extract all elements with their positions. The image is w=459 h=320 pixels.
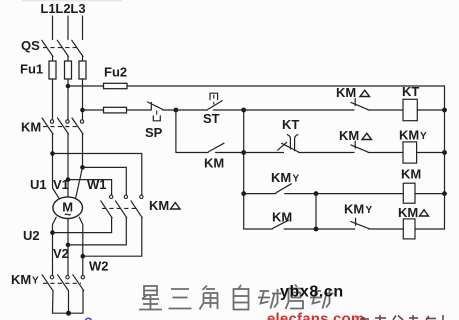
wire phase2 KM to V1 (67, 134, 69, 197)
contact KMY NC bar (355, 218, 357, 225)
contactor KMY pole3 terminal (81, 276, 84, 279)
svg-text:Fu2: Fu2 (104, 65, 127, 80)
svg-text:W1: W1 (87, 177, 107, 192)
button SP cap (153, 116, 160, 121)
wire motor lead bottom-mid (67, 219, 69, 276)
wire KMY coil to right rail (417, 152, 445, 154)
svg-text:U2: U2 (23, 228, 40, 243)
svg-text:KM: KM (339, 128, 359, 143)
contactor KMdelta pole1 blade (101, 201, 112, 218)
svg-text:KM: KM (11, 272, 31, 287)
wire rung2 mid segment (299, 152, 354, 154)
switch QS pole 1 blade (42, 40, 53, 56)
contactor KM pole3 terminal (80, 120, 83, 123)
node star point (66, 311, 71, 316)
contactor KMY linkage dashed (43, 282, 81, 284)
button SP blade (148, 102, 163, 109)
node rung3 right junction (442, 191, 447, 196)
svg-text:L1: L1 (40, 1, 55, 16)
relay KT timed contact cup right (295, 135, 298, 151)
contactor KM linkage dashed (43, 126, 80, 128)
svg-text:L2: L2 (55, 1, 70, 16)
wire phase2 Fu1 to KM (67, 79, 69, 120)
coil KMdelta label triangle (420, 210, 429, 216)
node rung3 branch junction (314, 191, 319, 196)
node V2 junction (66, 243, 71, 248)
contactor KM pole2 blade (58, 118, 69, 134)
wire delta link phase3 to KMdelta pole2 (83, 167, 127, 195)
node U2 junction (50, 230, 55, 235)
node phase2 delta tap (66, 177, 71, 182)
svg-text:elecfans.com: elecfans.com (267, 311, 364, 320)
contact KMY NO blade (276, 184, 291, 193)
wire rung2 left segment (244, 152, 284, 154)
wire delta link phase2 to KMdelta pole1 (68, 180, 112, 196)
svg-text:Y: Y (32, 276, 39, 287)
watermark title char xing (139, 286, 162, 310)
wire rung4 to KMdelta coil (369, 228, 404, 230)
svg-text:KM: KM (204, 156, 224, 171)
button SP NC bar (150, 102, 152, 110)
contactor KMY pole1 terminal (50, 276, 53, 279)
wire KT coil to right rail (417, 109, 444, 111)
node rung2 right junction (442, 150, 447, 155)
wire ST to left rail (213, 109, 243, 111)
wire phase3 Fu1 to KM (82, 79, 84, 120)
contact KMdelta NC rung1 bar (354, 98, 356, 105)
watermark title char dong2 (310, 289, 334, 309)
watermark title char zi (234, 285, 249, 310)
wire motor lead U1 (53, 188, 60, 198)
contact KMdelta NC rung1 blade (351, 102, 368, 109)
motor M1 body (53, 197, 83, 219)
wire phase3 KM to W1 (82, 134, 84, 167)
wire rung4 to KMY NC (316, 228, 355, 230)
node phase3 delta tap (80, 165, 85, 170)
contactor KMdelta power label triangle (171, 203, 181, 210)
wire motor lead bottom-right (79, 217, 83, 275)
svg-text:Y: Y (420, 131, 427, 142)
svg-text:KM: KM (272, 210, 292, 225)
wire rung1 to KT coil (368, 109, 403, 111)
contact KMdelta NC rung2 bar (354, 141, 356, 148)
switch QS pole 2 blade (57, 40, 68, 56)
contact KMdelta NC rung1 triangle (360, 90, 370, 96)
svg-text:ST: ST (203, 111, 220, 126)
svg-text:KM: KM (21, 120, 41, 135)
contact KMdelta NC rung2 triangle (362, 133, 372, 139)
svg-text:KM: KM (401, 167, 421, 182)
contactor KMdelta linkage dashed (102, 207, 139, 209)
wire L1 drop to QS (52, 16, 54, 40)
wire KM coil to right rail (415, 193, 445, 195)
node rung2 left junction (241, 150, 246, 155)
svg-text:Y: Y (366, 205, 373, 216)
wire rung2 to KMY coil (368, 152, 403, 154)
coil KMdelta body (403, 219, 415, 239)
wire junction to ST (176, 109, 207, 111)
wire rung1 (244, 109, 354, 111)
wire branch rung3 to rung4 (315, 194, 317, 229)
node rung3 left junction (241, 191, 246, 196)
watermark title char qi (286, 285, 304, 310)
coil KM body (403, 183, 415, 203)
contactor KMdelta pole1 terminal (110, 195, 113, 198)
wire rung3 to KM coil (316, 193, 403, 195)
fuse Fu2 body top (104, 83, 128, 88)
button ST cap (210, 93, 218, 99)
svg-text:QS: QS (21, 38, 40, 53)
switch QS linkage dashed (43, 47, 79, 49)
svg-text:V1: V1 (53, 177, 69, 192)
watermark title char san (169, 289, 192, 309)
svg-text:W2: W2 (89, 259, 109, 274)
wire rung4 left segment (244, 228, 273, 230)
watermark title char dong1 (258, 289, 282, 309)
fuse Fu2 body bottom (104, 107, 127, 113)
watermark title char jiao (200, 286, 218, 310)
wire SP to junction (163, 109, 176, 111)
contactor KMdelta pole2 terminal (124, 195, 127, 198)
node rung4 branch junction (314, 227, 319, 232)
wire W2 to KMdelta pole3 bottom (83, 218, 142, 256)
fuse Fu1 pole3 body (79, 61, 86, 79)
wire KMdelta coil to right rail (415, 228, 445, 230)
wire phase1 Fu1 to KM (52, 79, 54, 120)
contactor KM pole1 blade (42, 118, 53, 134)
svg-text:V2: V2 (53, 246, 69, 261)
wire KM self-hold to rail (216, 152, 244, 154)
wire self-hold branch down (176, 110, 208, 153)
button ST blade (208, 101, 223, 110)
wire rung3 left segment (244, 193, 276, 195)
wire KMY pole2 to star point (68, 291, 70, 314)
node phase1 delta tap (50, 151, 55, 156)
wire L2 drop to QS (67, 16, 69, 40)
node tap L2 to control (66, 84, 71, 89)
wire QS to Fu1 pole1 (52, 57, 54, 62)
switch QS pole 3 blade (72, 40, 83, 56)
wire KMY pole1 to star point (53, 291, 84, 314)
wire V2 to KMdelta pole2 bottom (68, 218, 126, 245)
coil KT body (403, 99, 417, 120)
wire control top rail (68, 86, 445, 110)
wire delta link phase1 to KMdelta pole3 (53, 154, 142, 196)
coil KMY body (403, 142, 417, 163)
watermark blue glyph bottom (85, 318, 91, 320)
wire rung3 mid segment (285, 193, 316, 195)
node SP output junction (174, 108, 179, 113)
wire L3 drop to QS (82, 16, 84, 40)
node tap L3 to control (80, 108, 85, 113)
svg-text:U1: U1 (30, 177, 47, 192)
button ST stem dashed (213, 95, 215, 105)
svg-text:KT: KT (282, 117, 299, 132)
button SP stem dashed (156, 111, 158, 117)
contact KM NO rung4 blade (273, 220, 289, 228)
contactor KMY pole3 blade (73, 275, 84, 291)
wire QS to Fu1 pole3 (82, 57, 84, 62)
wire QS to Fu1 pole2 (67, 57, 69, 62)
contactor KMY pole2 blade (58, 275, 69, 291)
wire rung4 mid segment (284, 228, 316, 230)
contact KMY NC blade (351, 222, 369, 229)
contactor KMY pole1 blade (42, 275, 53, 291)
svg-text:ybx8.cn: ybx8.cn (280, 284, 344, 301)
contact KMdelta NC rung2 blade (351, 145, 368, 152)
contactor KM pole3 blade (72, 118, 83, 134)
svg-text:KM: KM (344, 202, 364, 217)
svg-text:KM: KM (336, 85, 356, 100)
wire phase1 KM to U1 (52, 134, 54, 188)
svg-text:Fu1: Fu1 (20, 62, 43, 77)
svg-text:KM: KM (399, 128, 419, 143)
svg-text:KM: KM (149, 198, 169, 213)
contactor KM pole1 terminal (50, 120, 53, 123)
svg-text:KM: KM (398, 205, 418, 220)
fuse Fu1 pole1 body (49, 61, 56, 79)
contactor KMdelta pole3 blade (131, 201, 142, 218)
svg-text:KT: KT (402, 84, 419, 99)
wire right rail (444, 110, 446, 229)
relay KT timed contact bar (278, 142, 287, 150)
wire U2 to KMdelta pole1 bottom (53, 218, 112, 233)
contactor KMY pole2 terminal (66, 276, 69, 279)
contact KM self-hold blade (209, 143, 224, 151)
relay KT timed contact blade (282, 143, 299, 152)
svg-text:SP: SP (145, 125, 163, 140)
contactor KMdelta pole2 blade (116, 201, 127, 218)
svg-text:L3: L3 (70, 1, 85, 16)
wire left rail (243, 110, 245, 229)
node W2 junction (81, 254, 86, 259)
wire motor lead bottom-left (53, 217, 57, 275)
watermark red cjk tail (360, 315, 443, 320)
svg-text:Y: Y (293, 174, 300, 185)
contactor KM pole2 terminal (66, 120, 69, 123)
node rung1 right junction (442, 108, 447, 113)
wire L3 tap to SP (83, 109, 151, 111)
node rung1 left junction (241, 108, 246, 113)
fuse Fu1 pole2 body (65, 61, 72, 79)
relay KT timed contact cup left (287, 135, 290, 149)
wire motor lead W1 (76, 167, 83, 198)
contactor KMdelta pole3 terminal (140, 195, 143, 198)
svg-text:KM: KM (271, 170, 291, 185)
